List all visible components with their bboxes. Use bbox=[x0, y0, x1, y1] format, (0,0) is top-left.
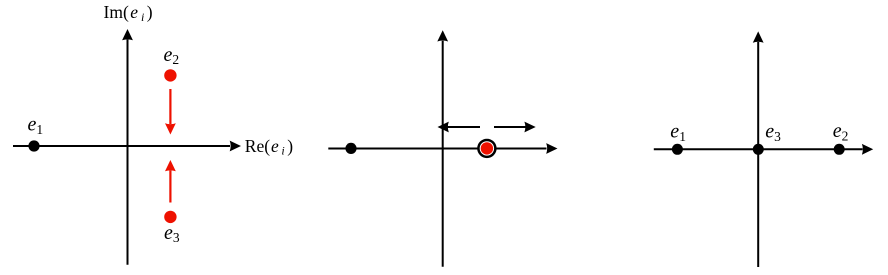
middle panel split arrow left bbox=[438, 122, 481, 133]
svg-text:e: e bbox=[271, 136, 279, 156]
right panel point e2 (black dot) bbox=[834, 144, 845, 155]
left panel point e3 (red dot) bbox=[164, 211, 176, 223]
svg-text:Im(: Im( bbox=[104, 2, 129, 22]
right panel point e1 (black dot) bbox=[672, 144, 683, 155]
left panel red arrow up (e3 moving to axis) bbox=[165, 160, 176, 203]
left panel point e1 (black dot) bbox=[28, 140, 39, 151]
svg-text:e: e bbox=[130, 2, 138, 22]
middle panel black dot on negative real axis bbox=[345, 143, 356, 154]
right panel vertical axis bbox=[753, 31, 764, 267]
svg-text:i: i bbox=[281, 144, 284, 158]
svg-text:i: i bbox=[141, 10, 144, 24]
middle panel vertical axis bbox=[437, 30, 448, 267]
middle panel circled red dot (double eigenvalue) bbox=[478, 140, 495, 157]
svg-text:): ) bbox=[287, 136, 293, 156]
middle panel split arrow right bbox=[494, 122, 536, 133]
right panel point e3 (black dot at origin) bbox=[753, 144, 764, 155]
middle panel horizontal axis bbox=[328, 143, 557, 154]
svg-text:): ) bbox=[147, 2, 153, 22]
left panel point e2 (red dot) bbox=[164, 69, 176, 81]
svg-text:Re(: Re( bbox=[245, 136, 270, 156]
left panel horizontal axis Re bbox=[13, 141, 241, 152]
left panel vertical axis Im bbox=[122, 29, 133, 265]
left panel axis label Re(e_i) bbox=[245, 136, 293, 158]
right panel horizontal axis bbox=[654, 144, 873, 155]
left panel red arrow down (e2 moving to axis) bbox=[165, 89, 176, 135]
left panel axis label Im(e_i) bbox=[104, 2, 153, 24]
